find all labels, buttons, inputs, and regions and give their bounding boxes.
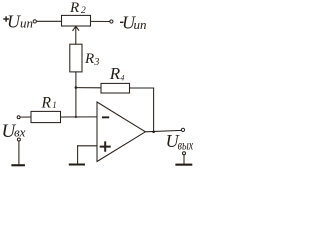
svg-text:R: R <box>84 51 94 67</box>
node junction R3/R4 <box>75 86 78 89</box>
resistor R3 <box>70 44 82 72</box>
op-amp U1 <box>97 102 145 162</box>
op-amp non-inverting marker <box>101 142 110 150</box>
terminal Uвых lower <box>183 152 186 155</box>
wiper arrow of R2 <box>75 27 77 44</box>
resistor R1 <box>31 111 61 122</box>
ground (input) <box>11 164 25 166</box>
svg-text:R: R <box>69 0 79 16</box>
terminal -Uип <box>110 20 113 23</box>
wire inverting node down <box>75 88 77 117</box>
resistor R2 (potentiometer) <box>62 15 91 26</box>
node output junction <box>152 131 155 134</box>
ground (op-amp +) <box>69 164 85 166</box>
svg-text:ип: ип <box>20 15 33 30</box>
wire <box>130 87 154 89</box>
op-amp inverting marker <box>102 116 109 118</box>
terminal Uвх lower <box>17 138 20 141</box>
svg-text:U: U <box>7 11 21 31</box>
node Uвых label <box>166 131 194 153</box>
ground (output) <box>175 164 192 166</box>
svg-text:вых: вых <box>178 138 194 153</box>
svg-text:R: R <box>41 95 52 112</box>
node Uвх label <box>2 121 26 142</box>
wire <box>75 72 77 88</box>
resistor R4 <box>101 83 130 93</box>
svg-text:2: 2 <box>81 6 86 16</box>
svg-text:4: 4 <box>120 73 124 82</box>
svg-text:R: R <box>109 64 121 83</box>
svg-text:ип: ип <box>134 17 147 32</box>
wire <box>183 155 185 164</box>
node -Uип label <box>120 21 124 23</box>
wire <box>37 20 62 22</box>
wire output <box>145 130 181 131</box>
wire feedback down <box>153 88 155 132</box>
terminal Uвх <box>17 116 20 119</box>
svg-text:1: 1 <box>52 100 57 110</box>
wire <box>18 141 20 164</box>
wire <box>61 116 98 118</box>
wire <box>20 116 31 118</box>
node +Uип label <box>3 16 9 22</box>
node junction R1/R3 inverting input <box>75 116 77 118</box>
terminal Uвых <box>181 128 184 131</box>
svg-text:3: 3 <box>93 57 99 68</box>
wire to ground <box>77 146 79 164</box>
wire <box>91 20 110 22</box>
wire <box>76 87 101 89</box>
wire non-inverting input <box>78 145 97 147</box>
terminal +Uип <box>33 20 36 23</box>
svg-text:вх: вх <box>14 125 26 140</box>
